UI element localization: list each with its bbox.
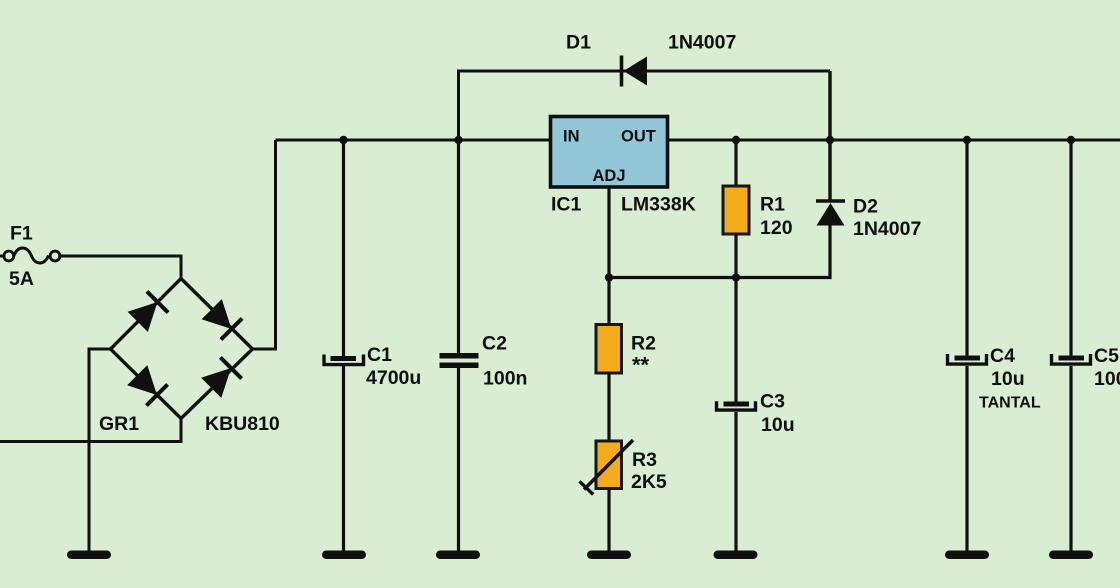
wire ADJ rail — [609, 225, 830, 278]
svg-text:C5: C5 — [1094, 345, 1119, 367]
wire R2 to R3 — [607, 373, 610, 441]
svg-text:LM338K: LM338K — [621, 194, 696, 216]
capacitor C2 — [440, 353, 479, 368]
svg-text:TANTAL: TANTAL — [979, 395, 1041, 412]
svg-text:100n: 100n — [483, 368, 527, 390]
svg-text:C2: C2 — [482, 333, 507, 355]
svg-text:D2: D2 — [853, 196, 878, 218]
wire C1 drop — [342, 140, 345, 551]
svg-text:GR1: GR1 — [99, 413, 139, 435]
svg-text:2K5: 2K5 — [631, 471, 667, 493]
resistor R1 — [723, 186, 749, 234]
svg-text:120: 120 — [760, 217, 793, 239]
capacitor C4 — [948, 354, 987, 364]
wire R3 to ground — [607, 488, 610, 551]
wire AC input 1: fuse to bridge top — [61, 256, 182, 279]
diode D1 — [622, 56, 648, 87]
svg-text:1N4007: 1N4007 — [668, 32, 736, 54]
node ADJ rail/R1-C3 — [732, 273, 740, 281]
ground (C4) — [945, 551, 989, 560]
wire bridge plus to bus — [252, 140, 276, 349]
ground (C2) — [436, 551, 480, 560]
resistor R3 (trimmer) — [580, 440, 634, 495]
wire ADJ pin down — [607, 187, 610, 325]
svg-text:10u: 10u — [991, 368, 1025, 390]
ground (C1) — [322, 551, 366, 560]
bridge diode bottom-left — [127, 365, 168, 406]
node bus/C1 — [339, 136, 347, 144]
capacitor C5 — [1052, 354, 1091, 364]
node bus/D2 — [826, 136, 834, 144]
svg-text:R3: R3 — [632, 449, 657, 471]
svg-text:C3: C3 — [760, 391, 785, 413]
ground (bridge minus) — [67, 551, 111, 560]
wire C3 drop — [734, 278, 737, 552]
svg-text:F1: F1 — [10, 223, 33, 245]
wire R1 drop — [734, 140, 737, 278]
ground (C5) — [1049, 551, 1093, 560]
diode D2 — [816, 201, 845, 226]
bridge diode top-right — [202, 299, 243, 340]
wire main bus left — [276, 139, 552, 142]
node bus/R1 — [732, 136, 740, 144]
resistor R2 — [596, 325, 622, 374]
capacitor C1 — [324, 355, 364, 365]
ground (C3) — [714, 551, 758, 560]
ground (R3) — [587, 551, 631, 560]
capacitor C3 — [717, 401, 756, 410]
svg-text:R2: R2 — [631, 333, 656, 355]
svg-text:1N4007: 1N4007 — [853, 218, 921, 240]
node ADJ rail/R2 — [605, 273, 613, 281]
svg-text:ADJ: ADJ — [593, 167, 626, 185]
svg-text:OUT: OUT — [621, 127, 656, 145]
svg-text:5A: 5A — [9, 268, 34, 290]
wire C4 drop — [965, 140, 968, 551]
node bus/C2/D1 — [454, 136, 462, 144]
svg-text:4700u: 4700u — [366, 367, 421, 389]
svg-text:IN: IN — [563, 128, 580, 146]
wire D1 loop right down to D2 — [828, 71, 831, 201]
svg-text:IC1: IC1 — [551, 194, 582, 216]
wire bridge minus to ground — [89, 349, 112, 551]
wire C2 drop — [457, 140, 460, 551]
bridge rectifier GR1 diamond — [111, 279, 253, 419]
svg-text:R1: R1 — [760, 194, 785, 216]
wire D1 loop left — [459, 71, 831, 140]
wire main bus right — [667, 139, 1120, 142]
op-amp regulator IC1 box — [551, 117, 668, 188]
bridge diode bottom-right — [201, 357, 242, 398]
node bus/C4 — [963, 136, 971, 144]
svg-text:100n: 100n — [1094, 368, 1120, 390]
svg-text:10u: 10u — [761, 414, 795, 436]
svg-text:KBU810: KBU810 — [205, 413, 280, 435]
svg-text:C1: C1 — [367, 344, 392, 366]
svg-text:D1: D1 — [566, 32, 591, 54]
fuse F1 — [0, 248, 60, 263]
svg-text:**: ** — [632, 353, 650, 378]
wire C5 drop — [1069, 140, 1072, 551]
node bus/C5 — [1067, 136, 1075, 144]
wire AC input 2: left edge to bridge bottom — [0, 418, 181, 442]
bridge diode top-left — [128, 291, 169, 332]
svg-text:C4: C4 — [990, 345, 1015, 367]
